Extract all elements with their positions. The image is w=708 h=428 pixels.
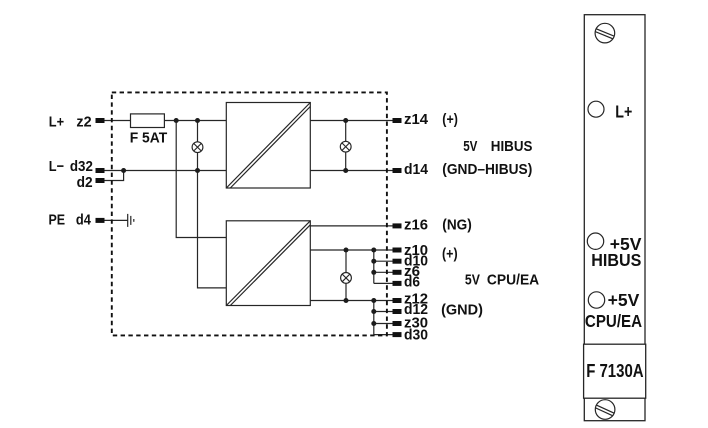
junction z12 lamp branch <box>344 298 349 303</box>
junction on L+ at branch A <box>174 118 179 123</box>
svg-text:(GND–HIBUS): (GND–HIBUS) <box>442 161 532 178</box>
junction lamp branch on L- <box>195 168 200 173</box>
terminal d2 <box>96 178 105 183</box>
front panel outline <box>584 15 645 421</box>
wire L+ branch to converter U2 upper input <box>176 121 226 238</box>
svg-text:HIBUS: HIBUS <box>491 138 533 155</box>
junction z14 lamp branch <box>343 118 348 123</box>
svg-text:L−: L− <box>49 158 64 175</box>
converter U1 <box>226 103 310 189</box>
screw top <box>593 23 617 43</box>
svg-text:d32: d32 <box>70 158 93 175</box>
junction z12 bus <box>371 298 376 303</box>
svg-text:PE: PE <box>49 212 66 229</box>
screw bottom <box>593 400 617 420</box>
junction on L+ at lamp branch <box>195 118 200 123</box>
svg-text:z16: z16 <box>404 216 428 233</box>
terminal d6 <box>393 281 402 286</box>
wire lamp V2 branch <box>345 121 347 171</box>
converter U2 <box>226 221 310 306</box>
svg-text:5V: 5V <box>463 138 477 155</box>
svg-text:z14: z14 <box>404 111 429 128</box>
wire lamp V3 branch <box>345 250 347 301</box>
svg-text:CPU/EA: CPU/EA <box>487 271 539 288</box>
terminal d10 <box>393 259 402 264</box>
svg-text:(+): (+) <box>442 111 458 128</box>
terminal d32 <box>96 168 105 173</box>
svg-text:z2: z2 <box>76 114 91 131</box>
wire PE to ground <box>104 219 128 221</box>
wire L- branch through lamp V1 to converter U2 lower input <box>198 121 227 288</box>
junction z10 bus <box>371 248 376 253</box>
wire bus d12-z30-d30 <box>373 301 375 335</box>
wire d14 output <box>310 170 392 172</box>
junction d14 lamp branch <box>343 168 348 173</box>
wire stub d12 <box>374 311 393 313</box>
junction z10 lamp branch <box>344 248 349 253</box>
wire fuse to converter U1 input <box>164 120 226 122</box>
svg-text:d30: d30 <box>404 327 428 344</box>
svg-text:L+: L+ <box>49 114 64 131</box>
junction d10 bus <box>371 259 376 264</box>
wire stub d10 <box>374 260 393 262</box>
terminal d30 <box>393 332 402 337</box>
junction z6 bus <box>371 270 376 275</box>
terminal z2 <box>96 118 105 123</box>
wire L- d32 to converter U1 input <box>104 170 226 172</box>
svg-text:L+: L+ <box>615 102 632 122</box>
svg-text:d14: d14 <box>404 161 429 178</box>
terminal z12 <box>393 298 402 303</box>
dashed enclosure box <box>112 92 387 335</box>
svg-text:(GND): (GND) <box>441 302 483 319</box>
wire z10 output <box>310 249 392 251</box>
terminal z30 <box>393 321 402 326</box>
junction d12 bus <box>371 309 376 314</box>
svg-text:+5V: +5V <box>608 290 640 310</box>
lamp V2 <box>340 141 351 152</box>
svg-text:F 5AT: F 5AT <box>130 130 168 147</box>
wire stub d6 <box>374 282 393 284</box>
terminal d4 <box>96 218 105 223</box>
terminal d14 <box>393 168 402 173</box>
wire d2 jog to L- <box>104 171 124 181</box>
svg-text:5V: 5V <box>465 271 480 288</box>
wire z2 terminal to fuse <box>104 120 131 122</box>
svg-text:F 7130A: F 7130A <box>586 361 643 381</box>
type label box F7130A <box>584 344 646 398</box>
svg-text:HIBUS: HIBUS <box>591 250 641 270</box>
wire stub z30 <box>374 323 393 325</box>
LED +5V CPU/EA <box>588 292 604 308</box>
fuse F 5AT <box>131 114 165 128</box>
junction z30 bus <box>371 321 376 326</box>
wire z16 output <box>310 225 392 227</box>
terminal z14 <box>393 118 402 123</box>
terminal squares <box>96 118 402 337</box>
svg-text:d6: d6 <box>404 274 420 291</box>
lamp V1 <box>192 142 203 153</box>
ground PE symbol <box>128 214 134 227</box>
wire stub d30 <box>374 334 393 336</box>
junction d2 joins L- <box>121 168 126 173</box>
terminal z16 <box>393 223 402 228</box>
lamp V3 <box>341 273 352 284</box>
svg-text:(NG): (NG) <box>442 216 472 233</box>
terminal z10 <box>393 248 402 253</box>
LED +5V HIBUS <box>587 233 603 249</box>
wire bus d10-z6-d6 <box>373 250 375 283</box>
terminal z6 <box>393 270 402 275</box>
svg-text:CPU/EA: CPU/EA <box>585 311 643 331</box>
wire z14 output <box>310 120 392 122</box>
LED L+ <box>588 101 604 117</box>
svg-text:d2: d2 <box>77 174 93 191</box>
svg-text:(+): (+) <box>442 246 458 263</box>
junction dots <box>121 118 376 326</box>
wire stub z6 <box>374 271 393 273</box>
terminal d12 <box>393 309 402 314</box>
wire z12 output <box>310 300 392 302</box>
svg-text:d4: d4 <box>76 212 92 229</box>
